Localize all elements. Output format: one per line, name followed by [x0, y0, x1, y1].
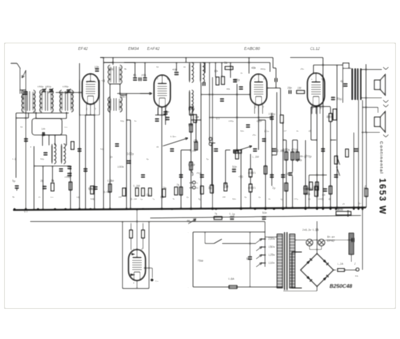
svg-text:47µ: 47µ	[294, 197, 299, 201]
svg-text:46k: 46k	[251, 66, 257, 70]
svg-text:160k: 160k	[318, 197, 324, 201]
svg-text:2µ: 2µ	[272, 186, 276, 190]
svg-text:40: 40	[183, 65, 186, 69]
svg-text:160p 160p: 160p 160p	[37, 85, 52, 89]
svg-text:50n: 50n	[240, 129, 245, 133]
svg-text:25: 25	[342, 202, 345, 206]
svg-text:1,2A: 1,2A	[337, 262, 344, 266]
svg-text:100k: 100k	[117, 165, 124, 169]
svg-text:100µ: 100µ	[268, 112, 275, 116]
svg-text:5µ: 5µ	[12, 179, 16, 183]
svg-text:7µ: 7µ	[152, 197, 155, 201]
svg-text:470p: 470p	[291, 148, 298, 152]
svg-text:16: 16	[308, 129, 311, 133]
svg-text:10k: 10k	[214, 69, 219, 73]
svg-text:2,1µ: 2,1µ	[264, 129, 270, 133]
svg-text:100p: 100p	[256, 119, 262, 123]
svg-text:50: 50	[20, 125, 23, 129]
svg-text:0,1: 0,1	[24, 210, 28, 214]
svg-text:100p: 100p	[108, 67, 114, 71]
svg-text:CL12: CL12	[310, 46, 321, 51]
svg-text:5µ: 5µ	[206, 157, 209, 161]
svg-text:5µ: 5µ	[198, 197, 201, 201]
svg-text:20: 20	[110, 155, 113, 159]
svg-text:0,5m: 0,5m	[170, 135, 177, 139]
svg-text:EABC80: EABC80	[244, 46, 261, 51]
svg-text:+50: +50	[238, 175, 244, 179]
svg-text:2n: 2n	[40, 179, 44, 183]
svg-text:Continental: Continental	[378, 141, 384, 174]
svg-text:8k: 8k	[21, 95, 25, 99]
svg-text:50n: 50n	[262, 211, 268, 215]
svg-text:50: 50	[156, 65, 159, 69]
svg-text:20µ: 20µ	[337, 97, 343, 101]
svg-text:160p: 160p	[64, 175, 70, 179]
svg-text:50p: 50p	[40, 157, 45, 161]
svg-text:1M: 1M	[297, 86, 302, 90]
svg-text:50p: 50p	[120, 119, 125, 123]
svg-text:45: 45	[156, 145, 159, 149]
svg-text:160k: 160k	[283, 148, 290, 152]
svg-text:1k: 1k	[224, 61, 228, 65]
svg-text:0,5M: 0,5M	[107, 179, 114, 183]
svg-text:4µ: 4µ	[244, 195, 247, 199]
svg-text:4n: 4n	[296, 129, 299, 133]
svg-text:20p: 20p	[141, 73, 146, 77]
svg-text:220v: 220v	[268, 237, 276, 241]
svg-text:0,1M: 0,1M	[133, 184, 140, 188]
svg-text:50k: 50k	[90, 197, 95, 201]
svg-text:0,1M: 0,1M	[131, 197, 138, 201]
svg-text:C+: C+	[155, 279, 159, 283]
svg-text:4µ: 4µ	[146, 157, 149, 161]
svg-text:25n: 25n	[300, 67, 305, 71]
svg-text:7k: 7k	[214, 212, 218, 216]
svg-text:2µ: 2µ	[340, 79, 344, 83]
svg-text:25kW: 25kW	[335, 208, 343, 212]
svg-text:2µ: 2µ	[258, 195, 261, 199]
svg-text:25n: 25n	[252, 133, 257, 137]
svg-text:46k: 46k	[226, 87, 231, 91]
svg-text:100µ: 100µ	[228, 119, 234, 123]
svg-text:0,1: 0,1	[12, 157, 16, 161]
svg-text:150v: 150v	[268, 245, 276, 249]
svg-text:47: 47	[284, 129, 287, 133]
svg-text:8n: 8n	[133, 73, 137, 77]
svg-text:EF42: EF42	[327, 239, 335, 243]
svg-text:100p: 100p	[62, 85, 69, 89]
svg-text:2µ: 2µ	[186, 195, 189, 199]
svg-text:1w: 1w	[76, 195, 79, 199]
svg-text:1k: 1k	[51, 179, 55, 183]
svg-text:460p: 460p	[260, 67, 266, 71]
svg-text:EAF42: EAF42	[147, 46, 160, 51]
svg-text:C: C	[197, 181, 199, 185]
svg-text:2n: 2n	[38, 195, 41, 199]
svg-text:0,8A: 0,8A	[228, 277, 235, 281]
svg-text:40p: 40p	[172, 68, 177, 72]
svg-text:1M: 1M	[224, 185, 229, 189]
svg-text:1m: 1m	[41, 127, 46, 131]
svg-text:1µ: 1µ	[280, 197, 283, 201]
svg-text:4n: 4n	[322, 193, 326, 197]
svg-text:4n: 4n	[268, 197, 271, 201]
svg-text:1µ: 1µ	[140, 197, 143, 201]
svg-text:7k: 7k	[176, 183, 180, 187]
svg-text:1653 W: 1653 W	[377, 178, 387, 215]
svg-text:20µ: 20µ	[120, 95, 125, 99]
svg-text:Kb: Kb	[355, 274, 359, 278]
svg-text:5n: 5n	[134, 119, 137, 123]
svg-text:100p: 100p	[127, 152, 134, 156]
svg-text:B250C48: B250C48	[330, 284, 353, 290]
svg-text:2w: 2w	[195, 115, 200, 119]
svg-text:50n: 50n	[232, 197, 237, 201]
svg-text:5n: 5n	[100, 147, 103, 151]
svg-text:0,1µ: 0,1µ	[229, 212, 235, 216]
svg-text:110v: 110v	[268, 261, 275, 265]
svg-text:EM34: EM34	[128, 46, 140, 51]
svg-text:+B: +B	[101, 79, 105, 83]
svg-text:75W: 75W	[197, 259, 204, 263]
svg-text:M: M	[187, 219, 190, 223]
svg-text:26n: 26n	[287, 86, 293, 90]
svg-text:50n: 50n	[232, 165, 238, 169]
svg-text:4n: 4n	[308, 197, 311, 201]
svg-text:Z: Z	[354, 262, 356, 266]
svg-text:1,1M: 1,1M	[252, 155, 259, 159]
svg-text:EF42: EF42	[78, 46, 89, 51]
svg-text:D: D	[197, 186, 199, 190]
svg-text:125v: 125v	[268, 253, 276, 257]
svg-text:4n (70)p: 4n (70)p	[300, 155, 312, 159]
